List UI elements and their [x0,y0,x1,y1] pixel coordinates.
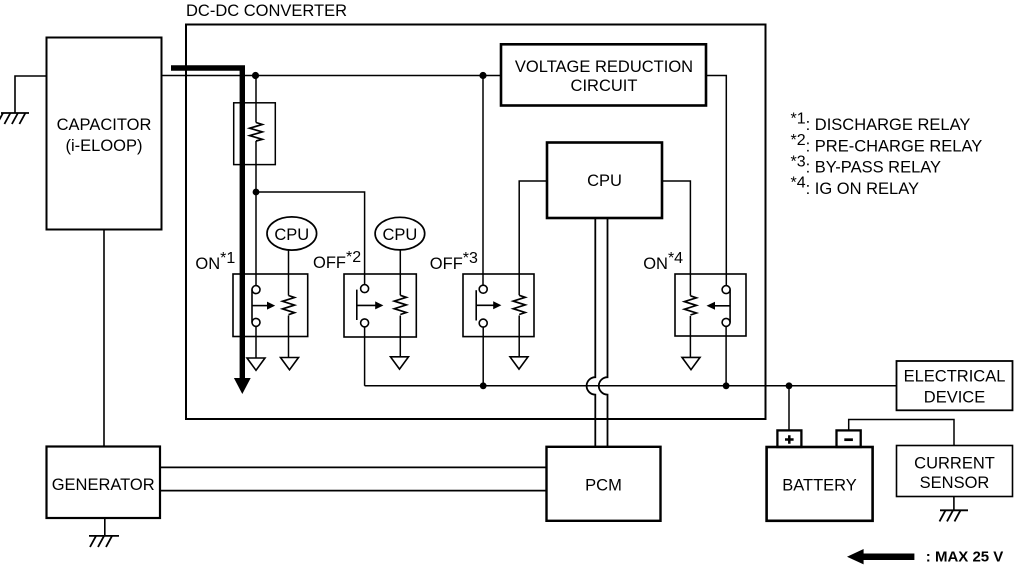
relay K2 switch contacts (open) [357,285,369,327]
wire battery - terminal to current sensor [849,420,954,446]
wire node C to relay K1 switch [255,192,257,286]
wire main bus capacitor to voltage reduction circuit [162,75,502,77]
voltage reduction circuit box U4 [501,44,706,105]
svg-text:: MAX 25 V: : MAX 25 V [926,549,1004,566]
ground triangle (relay K1 switch) [247,358,265,370]
PCM box [547,447,661,521]
junction node B [479,72,486,79]
electrical device box [897,361,1013,410]
svg-text:PCM: PCM [585,477,622,495]
svg-text:ELECTRICAL: ELECTRICAL [904,368,1006,386]
junction node A [252,72,259,79]
junction node E (IG ON relay output) [723,382,730,389]
wire generator to PCM (upper) [160,466,547,468]
relay K3 actuation arrow [476,301,501,309]
ground (capacitor chassis ground) [0,113,29,124]
relay K1 box (discharge relay) [233,274,308,337]
wire capacitor to generator [103,230,105,447]
relay K2 box (pre-charge relay) [344,274,416,337]
battery + terminal [777,430,801,447]
svg-text:DC-DC CONVERTER: DC-DC CONVERTER [186,2,347,20]
wire current sensor to ground [953,497,955,511]
wire generator to ground [104,518,106,536]
svg-text:BATTERY: BATTERY [782,477,857,495]
capacitor C1 (i-ELOOP) box [47,38,162,230]
wire generator to PCM (lower) [160,490,547,492]
wire battery tap to + terminal [788,386,790,430]
ground (generator chassis ground) [89,536,119,547]
label OFF*3 [430,250,478,273]
svg-text:SENSOR: SENSOR [920,474,990,492]
svg-text:CPU: CPU [274,226,309,244]
wire node C to relay K2 switch [256,192,365,285]
svg-text:CIRCUIT: CIRCUIT [571,77,638,95]
relay K1 actuation arrow [252,302,275,310]
relay K2 actuation arrow [357,301,384,309]
thick discharge current arrow [171,68,251,394]
ground triangle (relay K3 coil) [510,357,528,369]
wire R1 top lead [255,76,257,123]
wire capacitor to ground [15,76,47,113]
label OFF*2 [313,249,361,272]
relay K4 actuation arrow [707,302,731,310]
svg-text:CURRENT: CURRENT [914,454,995,472]
battery - terminal [837,430,861,447]
wire CPU to relay K4 coil [662,181,690,296]
ground triangle (relay K4 coil) [682,357,700,369]
wire relay K2 coil to ground [399,316,401,357]
legend line *3 [791,153,942,176]
wire CPU oval U2 to relay K1 coil [288,250,290,296]
CPU box U1 [547,143,662,219]
label ON*4 [643,250,683,273]
legend line *2 [791,132,983,155]
generator G1 box [47,447,161,519]
resistor R1 box (pre-charge resistor) [234,103,276,165]
label DC-DC CONVERTER [186,2,347,20]
wire CPU oval U3 to relay K2 coil [399,250,401,296]
relay K4 switch contacts (closed) [722,286,730,327]
relay K1 coil [283,296,295,315]
wire relay K3 coil to ground [518,316,520,357]
legend line *1 [791,111,971,134]
wire CPU to PCM (right, with hop) [599,218,608,447]
relay K3 switch contacts (open) [476,285,487,327]
label MAX 25 V [926,549,1004,566]
wire R1 bottom lead to node C [255,141,257,192]
MAX 25 V arrow [847,549,914,564]
ground triangle (relay K1 coil) [281,358,299,370]
junction node C [253,189,260,196]
svg-text:DEVICE: DEVICE [924,388,985,406]
junction node F (battery tap) [786,382,793,389]
relay K2 coil [394,295,406,314]
wire voltage reduction circuit to relay K4 switch [706,76,726,286]
svg-text:CPU: CPU [587,172,622,190]
svg-text:CAPACITOR: CAPACITOR [57,116,152,134]
wire relay K1 coil to ground [288,316,290,358]
wire CPU to relay K3 coil [519,181,547,295]
wire relay K2 switch to output bus [364,327,366,386]
svg-text:CPU: CPU [382,226,417,244]
legend line *4 [791,175,920,198]
output bus wire to electrical device [365,385,897,387]
wire node B to relay K3 switch [482,76,484,286]
junction node D (bypass bus) [480,382,487,389]
resistor R1 zigzag [250,123,263,141]
label ON*1 [195,250,235,273]
current sensor box [897,446,1013,497]
wire relay K1 switch to ground [255,326,257,358]
relay K3 box (by-pass relay) [463,274,534,337]
battery BT1 box [767,447,873,521]
wire relay K4 coil to ground [689,316,691,358]
relay K3 coil [513,295,525,314]
ground triangle (relay K2 coil) [391,357,409,369]
relay K1 switch contacts [252,286,260,327]
CPU oval U3 (pre-charge relay driver) [375,217,425,250]
CPU oval U2 (discharge relay driver) [267,217,317,250]
relay K4 coil [684,296,696,315]
wire relay K3 switch to output bus [482,327,484,386]
svg-text:VOLTAGE REDUCTION: VOLTAGE REDUCTION [515,58,693,76]
DC-DC converter enclosure box [186,25,766,420]
svg-text:(i-ELOOP): (i-ELOOP) [65,137,142,155]
svg-text:GENERATOR: GENERATOR [52,476,155,494]
wire CPU to PCM (left, with hop) [587,218,596,447]
wire relay K4 switch to output bus [725,326,727,385]
ground (current sensor chassis ground) [940,510,969,521]
relay K4 box (IG ON relay) [675,274,746,336]
